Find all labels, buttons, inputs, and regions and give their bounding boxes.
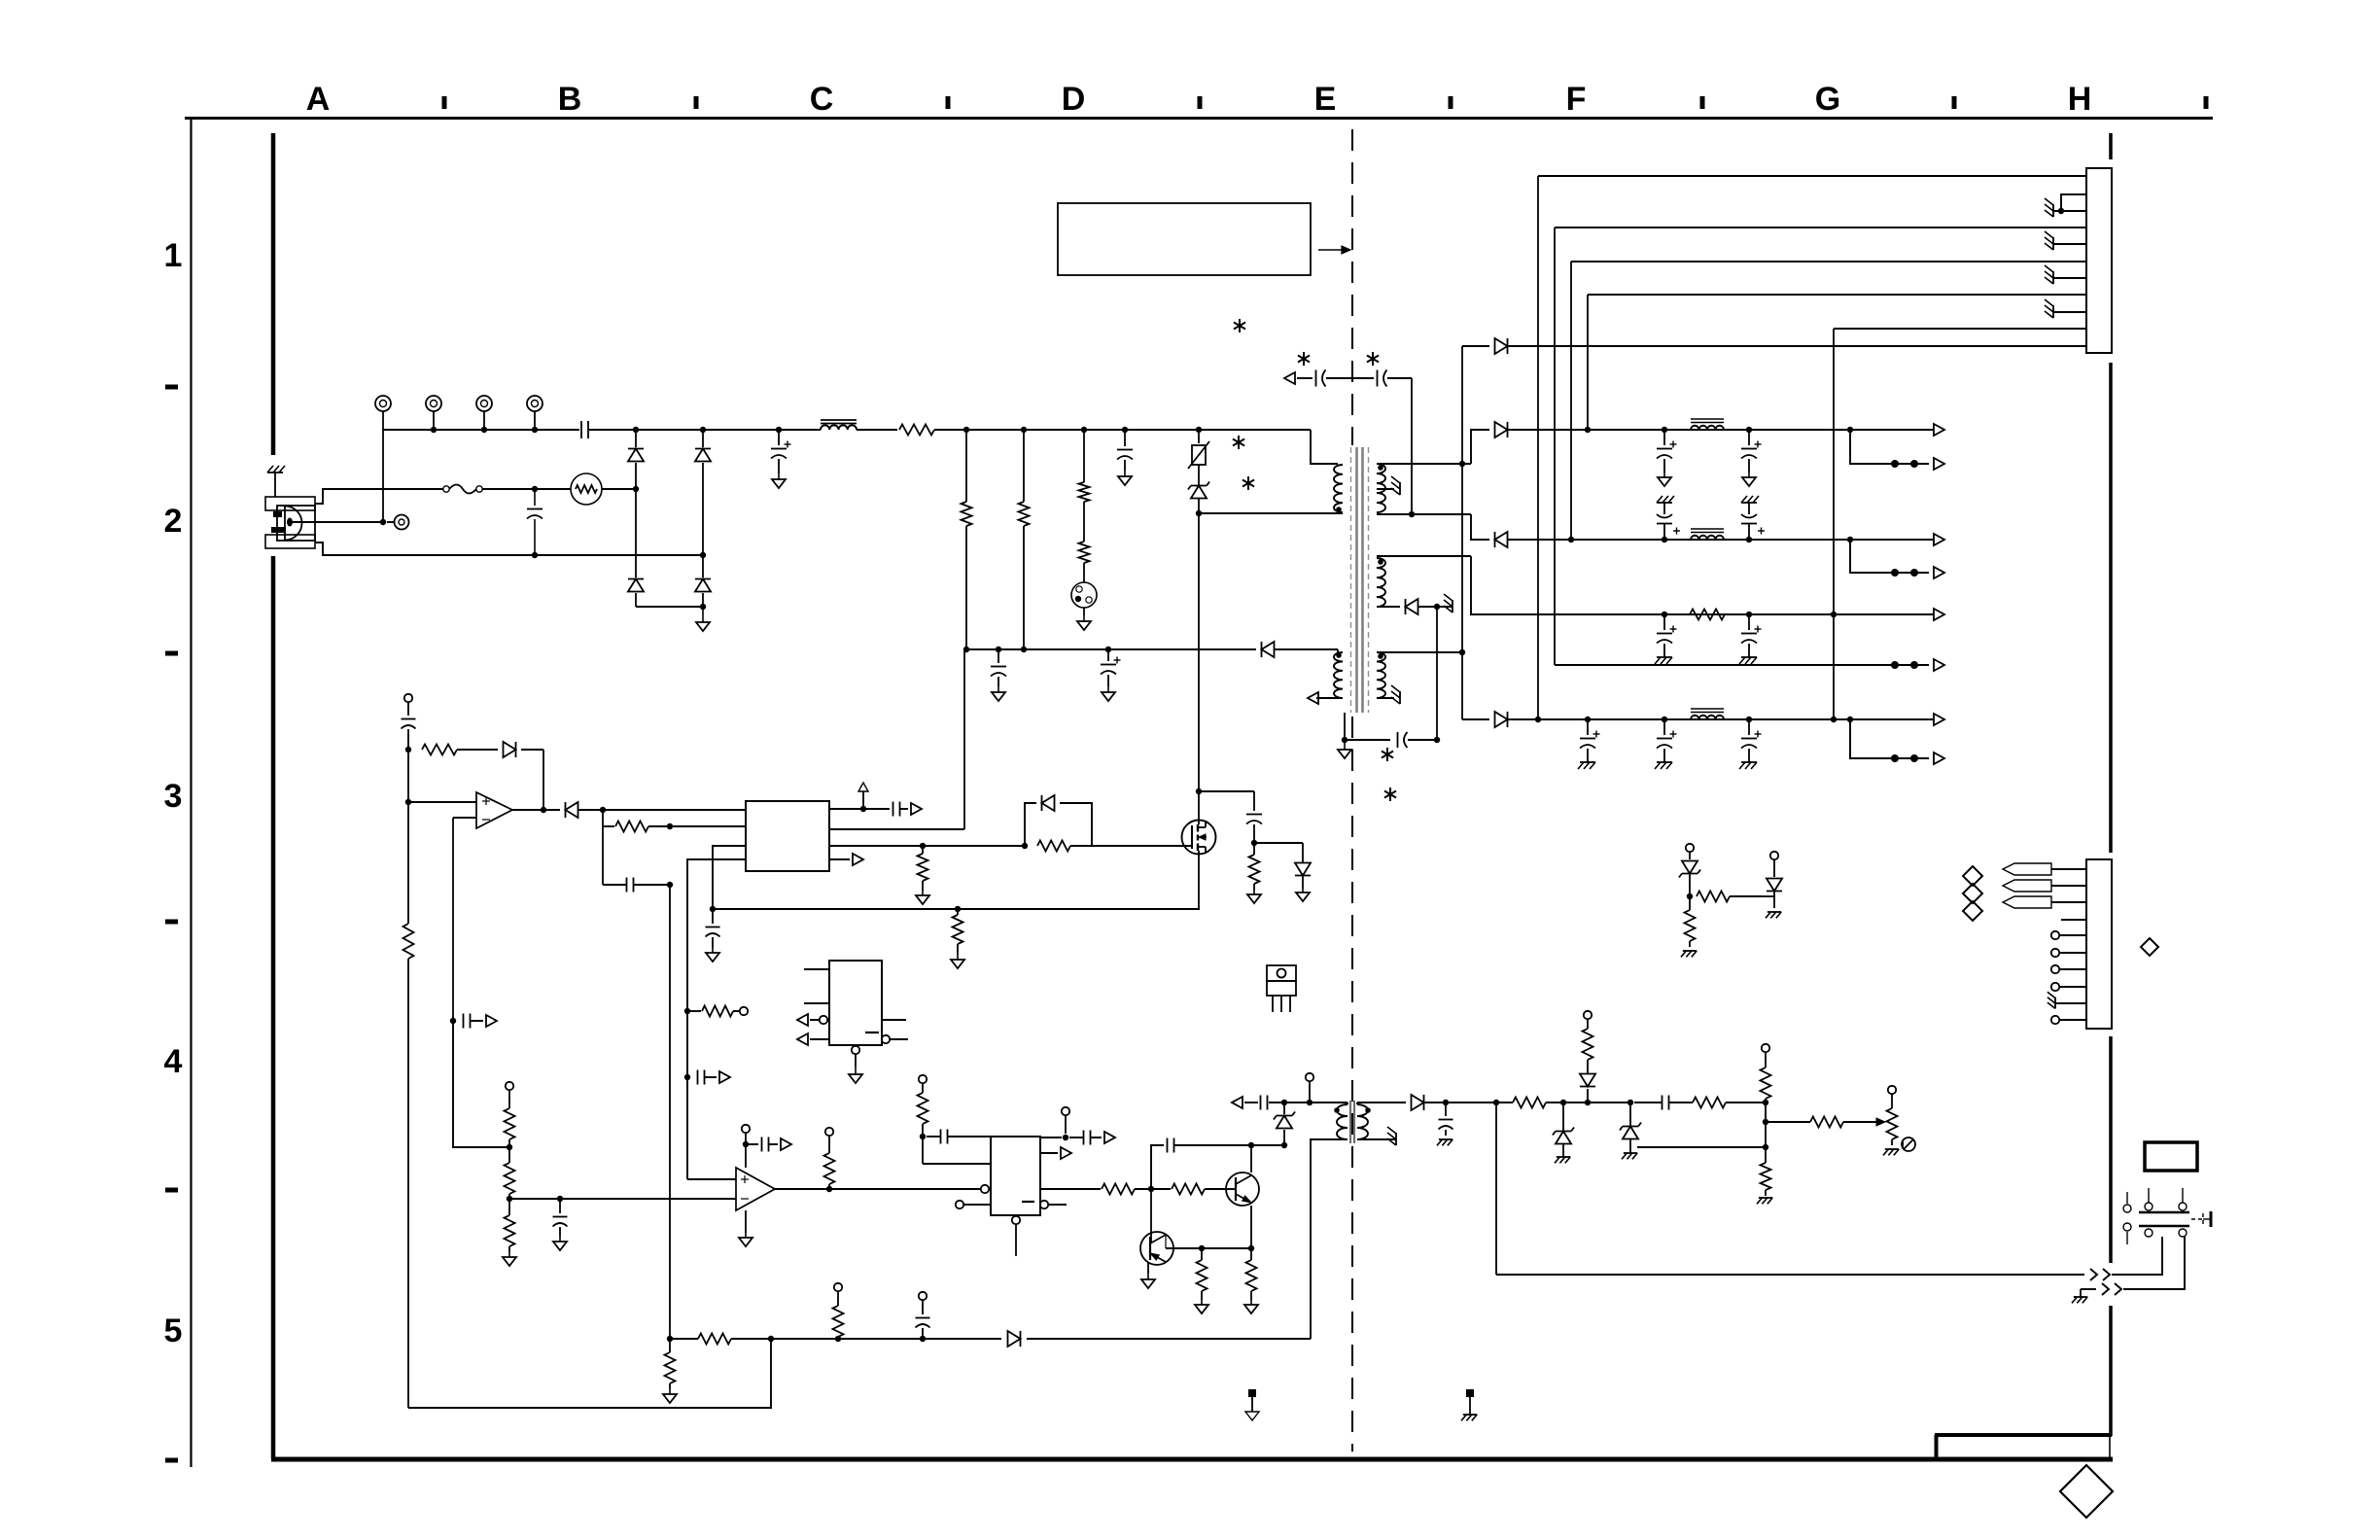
transistor Q2 bbox=[1226, 1172, 1259, 1206]
diode D7 bbox=[1471, 422, 1653, 464]
resistor R30 bbox=[1761, 1044, 1771, 1102]
resistor R26 bbox=[833, 1283, 844, 1339]
snubber capacitor C9 bbox=[1284, 370, 1412, 387]
rail1 capacitor C11 bbox=[1741, 430, 1762, 486]
U6 minus sign bbox=[1022, 1201, 1034, 1203]
current sense wire bbox=[713, 906, 1200, 912]
rail3 wire bbox=[1653, 612, 1934, 617]
ground D18 bbox=[1296, 889, 1310, 901]
svg-text:5: 5 bbox=[164, 1312, 183, 1349]
U4 pin1 bbox=[804, 968, 829, 970]
diamond marker C bbox=[1963, 901, 1982, 921]
diode D10 bbox=[1462, 712, 1653, 727]
capacitor C26 bbox=[553, 1199, 568, 1237]
capacitor C19 bbox=[1246, 791, 1262, 846]
test point TP4 bbox=[527, 396, 542, 433]
capacitor C6 bbox=[991, 649, 1006, 686]
wire chevron1 to switch bbox=[2112, 1237, 2162, 1275]
capacitor C23 bbox=[706, 909, 720, 948]
U4 pin3 bbox=[797, 1014, 827, 1026]
capacitor C30 bbox=[1151, 1138, 1251, 1190]
inline connector chevrons row1 bbox=[2090, 1269, 2110, 1280]
capacitor C24 bbox=[893, 802, 909, 817]
inner border thick right seg2 bbox=[2109, 363, 2113, 853]
feedback bottom wire bbox=[408, 1336, 774, 1408]
inner border thick left lower bbox=[271, 556, 276, 1459]
C27 arrow bbox=[781, 1138, 791, 1150]
capacitor C20 bbox=[402, 719, 416, 753]
IC U4 bbox=[829, 961, 882, 1045]
T1 secondary winding S2 bbox=[1377, 558, 1385, 607]
diamond marker A bbox=[1963, 866, 1982, 886]
U6 right pin2 arrow bbox=[1040, 1147, 1071, 1159]
ground U3 bbox=[739, 1210, 752, 1246]
ground mark G2 bbox=[1461, 1389, 1477, 1420]
svg-text:D: D bbox=[1062, 81, 1086, 118]
wire snubber to S1 bottom bbox=[1409, 378, 1415, 517]
wire loop down bbox=[1495, 1102, 1497, 1275]
U6 pin top resistor R19 bbox=[918, 1075, 928, 1139]
svg-text:B: B bbox=[558, 81, 582, 118]
opto LED D17 bbox=[1762, 852, 1782, 908]
CN2 pin9 ground bbox=[2047, 992, 2086, 1008]
svg-text:G: G bbox=[1815, 81, 1840, 118]
resistor R33 bbox=[1685, 896, 1696, 947]
chassis ground D9 bbox=[1437, 594, 1452, 612]
wire P1 bottom to drain rail bbox=[1199, 512, 1343, 514]
rail2 output arrow bbox=[1934, 534, 1944, 545]
CN1 pin5 ground bbox=[2045, 231, 2086, 250]
ground R22 bbox=[1195, 1300, 1208, 1313]
resistor R27 bbox=[1513, 1098, 1566, 1108]
transformer T1 core bbox=[1357, 447, 1363, 713]
chassis ground above AC inlet bbox=[267, 466, 285, 497]
resistor R21 bbox=[1172, 1184, 1226, 1195]
wire IC1 pin3 left bbox=[710, 846, 746, 912]
fuse F1 bbox=[443, 485, 482, 494]
capacitor C32 bbox=[916, 1292, 930, 1339]
wire Q2 emitter bbox=[1248, 1206, 1254, 1251]
wire bridge negative bbox=[636, 604, 706, 610]
resistor R28 bbox=[1583, 1019, 1593, 1060]
U6 right pin1 bbox=[1040, 1107, 1069, 1140]
rail4 choke L4 bbox=[1691, 709, 1724, 719]
resistor R3 bbox=[1019, 430, 1030, 652]
wire to transformer primary top bbox=[1311, 430, 1338, 464]
vcc arrow IC1 bbox=[858, 783, 868, 809]
CN1 pin9 ground bbox=[2045, 299, 2086, 318]
resistor R13 bbox=[603, 822, 746, 832]
asterisk 6 bbox=[1382, 748, 1393, 761]
ground C26 bbox=[553, 1237, 567, 1250]
resistor R23 bbox=[1246, 1248, 1257, 1300]
X-capacitor C2 bbox=[527, 489, 542, 558]
wire C19 to D18 bbox=[1254, 842, 1303, 844]
terminal T8 bbox=[742, 1125, 750, 1168]
capacitor C5 bbox=[1117, 430, 1133, 471]
T2 bottom-right ground bbox=[1357, 1127, 1396, 1145]
riser S1 to D6 bbox=[1461, 346, 1463, 719]
diode D5 bbox=[1262, 642, 1339, 657]
wire loop bottom bbox=[1496, 1274, 2084, 1276]
test point TP1 bbox=[375, 396, 391, 430]
CN1 pin2 link bbox=[2058, 194, 2086, 214]
U2 output wire bbox=[512, 809, 560, 811]
U4 out2 bbox=[882, 1035, 908, 1043]
op-amp U3 bbox=[736, 1168, 775, 1210]
ground bridge negative bbox=[696, 607, 710, 631]
capacitor C33 bbox=[1439, 1102, 1453, 1136]
chassis ground S1 tap bbox=[1391, 476, 1400, 495]
inner border thick right seg1 bbox=[2109, 133, 2113, 159]
T2 bottom-left wire bbox=[1311, 1139, 1347, 1339]
wire DC bus left segment bbox=[383, 430, 579, 522]
display DS1 bbox=[2145, 1142, 2197, 1171]
capacitor C21 bbox=[450, 1014, 483, 1029]
feedback wire row5 bbox=[1027, 1338, 1311, 1340]
thermistor RT1 bbox=[571, 473, 602, 505]
C29 arrow bbox=[1104, 1132, 1115, 1143]
resistor R20 bbox=[1102, 1184, 1171, 1195]
resistor R1 bbox=[899, 425, 969, 436]
ground R23 bbox=[1244, 1300, 1258, 1313]
CN2 harness pin1 bbox=[2003, 863, 2086, 875]
capacitor C25 bbox=[694, 1070, 717, 1085]
resistor R29 bbox=[1693, 1098, 1768, 1108]
T2 top-left wire bbox=[1269, 1100, 1347, 1105]
T1 primary winding P2 bbox=[1334, 652, 1343, 698]
svg-text:2: 2 bbox=[164, 503, 183, 540]
wire Q3 collector bbox=[1166, 1235, 1251, 1251]
rail3 resistor R6 bbox=[1690, 610, 1725, 620]
wire divider to U3 bbox=[509, 1196, 736, 1202]
gate loop resistor R9 bbox=[1037, 841, 1092, 852]
rail4 capacitor C18 bbox=[1739, 719, 1762, 769]
zener diode ZD1 bbox=[1188, 465, 1209, 794]
asterisk 4 bbox=[1233, 436, 1244, 449]
diode D13 bbox=[504, 742, 544, 810]
wire drain branch bbox=[1199, 790, 1254, 792]
IC1 out arrow pin bbox=[829, 854, 863, 865]
rail1 choke L2 bbox=[1691, 419, 1724, 430]
varistor RV1 bbox=[1188, 430, 1209, 469]
earth terminal bbox=[387, 515, 409, 530]
gate drive wire bbox=[829, 843, 1028, 849]
svg-text:3: 3 bbox=[164, 778, 183, 815]
T2 secondary winding bbox=[1357, 1104, 1371, 1139]
wire thermistor to bridge bbox=[602, 486, 639, 492]
resistor R25 bbox=[665, 1339, 676, 1389]
diode D6 bbox=[1462, 338, 2086, 354]
connector J2 round bbox=[1071, 582, 1097, 615]
ground C23 bbox=[706, 948, 719, 962]
ground J2 bbox=[1077, 615, 1091, 630]
wire S1 tap ground bbox=[1377, 488, 1394, 490]
rail1 capacitor C10 bbox=[1657, 430, 1677, 486]
bus wire 3 bbox=[1571, 261, 2086, 262]
wire AC line from inlet bbox=[315, 489, 443, 504]
rail3 capacitor C14 bbox=[1655, 614, 1677, 664]
wire Q2 collector bbox=[1248, 1142, 1254, 1172]
chassis ground R33 bbox=[1681, 951, 1697, 957]
wire S2 riser to rail3 bbox=[1471, 556, 1653, 614]
AC inlet connector J1 bbox=[265, 497, 315, 548]
wire S1 bottom bbox=[1377, 513, 1471, 515]
inner border thick left upper bbox=[271, 133, 276, 455]
inner border thick right seg4 bbox=[2109, 1306, 2113, 1436]
terminal VR1 bbox=[1888, 1086, 1896, 1094]
resistor R31 bbox=[1810, 1117, 1876, 1128]
asterisk 3 bbox=[1367, 352, 1379, 366]
inner border thick bottom bbox=[271, 1457, 2113, 1462]
connector CN1 bbox=[2086, 168, 2112, 353]
chassis ground S3 bbox=[1391, 685, 1400, 704]
wire U2 minus input bbox=[453, 818, 476, 1021]
switch S1 bbox=[2123, 1188, 2211, 1244]
title block bbox=[1935, 1435, 2112, 1457]
wire U2 plus input bbox=[405, 750, 476, 805]
U4 out1 bbox=[882, 1019, 906, 1021]
svg-text:A: A bbox=[306, 81, 331, 118]
U6 pin2 wire bbox=[923, 1137, 991, 1164]
T2 sec top wire bbox=[1357, 1102, 1406, 1104]
diode D9 bbox=[1406, 599, 1441, 614]
resistor R11 bbox=[422, 745, 498, 755]
wire source bbox=[1198, 851, 1200, 909]
fb wire 1 bbox=[1446, 1100, 1513, 1105]
zener diode ZD2 bbox=[1274, 1100, 1295, 1145]
wire ZD5 to R34 bbox=[1637, 1144, 1768, 1150]
wire U2 minus to divider bbox=[453, 1021, 509, 1147]
wire S2 bottom bbox=[1377, 606, 1400, 608]
wire DC bus right bbox=[966, 427, 1311, 433]
bridge diode D3 bbox=[628, 489, 644, 607]
bus riser 4 bbox=[1585, 295, 1591, 433]
resistor R4 bbox=[1079, 430, 1090, 502]
wire U3 plus bbox=[687, 1178, 736, 1180]
resistor R24 bbox=[670, 1334, 771, 1345]
capacitor C31 bbox=[1232, 1096, 1268, 1110]
rail3 return wire bbox=[1555, 659, 1944, 671]
rail3 output arrow bbox=[1934, 609, 1944, 620]
rail1 output arrow bbox=[1934, 424, 1944, 436]
transformer T1 core dashes bbox=[1351, 447, 1369, 713]
U6 left pin circle bbox=[981, 1185, 989, 1193]
test point TP2 bbox=[426, 396, 441, 433]
resistor R14 bbox=[687, 1006, 739, 1017]
svg-text:H: H bbox=[2068, 81, 2092, 118]
wire Q3 emitter ground bbox=[1141, 1262, 1155, 1288]
isolation boundary dashed line upper bbox=[1351, 129, 1353, 445]
terminal T10 bbox=[1584, 1011, 1592, 1019]
capacitor C22 bbox=[603, 826, 673, 892]
border outer left line bbox=[190, 118, 192, 1467]
revision diamond bottom right bbox=[2060, 1465, 2113, 1518]
CN2 pin4 stub bbox=[2061, 919, 2086, 921]
rail4 wire bbox=[1653, 717, 1934, 722]
bus riser 3 bbox=[1570, 262, 1572, 540]
svg-text:E: E bbox=[1314, 81, 1337, 118]
IC1 vcc wire bbox=[829, 649, 964, 829]
bus wire 2 bbox=[1555, 227, 2086, 228]
border outer top line bbox=[185, 117, 2213, 120]
wire loop to gate bbox=[1092, 845, 1192, 847]
chassis ground ZD5 bbox=[1622, 1153, 1637, 1159]
transistor Q3 bbox=[1140, 1232, 1173, 1265]
IC1 out1 arrow bbox=[911, 803, 922, 815]
diode D15 bbox=[1412, 1095, 1450, 1110]
chassis ground C33 bbox=[1437, 1139, 1452, 1145]
capacitor C34 bbox=[1634, 1096, 1693, 1110]
regulator U5 bbox=[1267, 965, 1296, 1012]
note box arrow bbox=[1318, 246, 1350, 254]
resistor R15 bbox=[505, 1108, 515, 1150]
riser D9 to D10 bbox=[1436, 607, 1438, 740]
resistor R8 bbox=[918, 846, 928, 891]
LED D16 bbox=[1580, 1060, 1595, 1102]
bridge diode D1 bbox=[628, 430, 644, 486]
wire Q2C to zener bbox=[1251, 1142, 1287, 1148]
resistor R5 bbox=[1079, 502, 1090, 582]
rail4 output arrow bbox=[1934, 714, 1944, 725]
wire IC1 pin4 left bbox=[684, 859, 746, 1179]
wire Q3 base bbox=[1150, 1189, 1152, 1243]
svg-text:F: F bbox=[1566, 81, 1587, 118]
ground mark G1 bbox=[1245, 1389, 1259, 1420]
bus riser 2 bbox=[1554, 227, 1556, 665]
diode D14 bbox=[771, 1331, 1021, 1347]
IC U6 bbox=[991, 1137, 1040, 1215]
resistor R12 bbox=[403, 802, 414, 1408]
asterisk 2 bbox=[1298, 352, 1310, 366]
diamond marker B bbox=[1963, 884, 1982, 903]
bus wire 5 bbox=[1834, 328, 2086, 330]
note box bbox=[1058, 203, 1311, 275]
ground R17 bbox=[503, 1252, 516, 1266]
bus wire 4 bbox=[1588, 294, 2086, 296]
U4 pin2 bbox=[804, 1002, 829, 1004]
svg-text:4: 4 bbox=[164, 1043, 183, 1080]
rail3 capacitor C15 bbox=[1739, 614, 1762, 664]
wire AC earth from inlet bbox=[293, 519, 386, 525]
wire DC bus middle bbox=[589, 427, 821, 433]
terminal T9 bbox=[1306, 1073, 1313, 1102]
bus riser 1 bbox=[1537, 176, 1539, 719]
diode D8 bbox=[1471, 514, 1653, 547]
ground C5 bbox=[1118, 471, 1132, 485]
border top tick marks bbox=[442, 96, 2209, 109]
CN1 pin3 ground bbox=[2045, 198, 2086, 217]
T1 secondary winding S3 bbox=[1377, 652, 1385, 698]
CN2 pin10 bbox=[2051, 1016, 2086, 1024]
chassis ground ZD3 bbox=[1555, 1157, 1570, 1163]
wire chevron2 to switch bbox=[2123, 1237, 2185, 1289]
T1 shield to ground bbox=[1342, 713, 1347, 743]
capacitor C8 bbox=[1345, 732, 1440, 748]
U6 bottom-right pin bbox=[1040, 1201, 1067, 1208]
capacitor C28 bbox=[927, 1130, 991, 1144]
smoothing capacitor C4 bbox=[771, 430, 791, 473]
trimmer arrow bbox=[1876, 1118, 1885, 1126]
terminal T6 bbox=[740, 1007, 748, 1015]
C21 arrow bbox=[486, 1015, 497, 1027]
chassis ground D17 bbox=[1766, 912, 1781, 918]
wire P2 bottom off-page bbox=[1308, 692, 1343, 704]
chassis ground VR1 bbox=[1883, 1149, 1899, 1155]
ground R25 bbox=[663, 1389, 677, 1403]
wire S3 bottom ground bbox=[1377, 697, 1394, 699]
T1 secondary winding S1 bbox=[1377, 464, 1385, 512]
connector CN2 bbox=[2086, 859, 2112, 1029]
diode D12 bbox=[541, 802, 746, 818]
chassis ground R34 bbox=[1757, 1198, 1772, 1204]
capacitor C7 electrolytic bbox=[1101, 649, 1121, 686]
rail2 branch bbox=[1850, 540, 1944, 578]
asterisk 1 bbox=[1234, 319, 1245, 332]
feedback riser bbox=[667, 885, 673, 1342]
asterisk 5 bbox=[1242, 476, 1254, 490]
IC1 out1 wire bbox=[829, 806, 890, 812]
zener diode ZD4 bbox=[1679, 861, 1700, 900]
wire IC1 in1 bbox=[602, 810, 604, 826]
diode D18 bbox=[1295, 843, 1311, 889]
border left tick marks bbox=[165, 385, 178, 1463]
filter choke L1 bbox=[821, 420, 897, 430]
rail2 capacitor C12 bbox=[1657, 496, 1680, 540]
transformer T2 core bbox=[1350, 1101, 1354, 1143]
wire AC neutral from inlet bbox=[315, 542, 703, 555]
fb wire 2 bbox=[1563, 1100, 1633, 1105]
zener diode ZD5 bbox=[1620, 1102, 1641, 1153]
rail4 capacitor C16 bbox=[1578, 719, 1600, 769]
CN2 pin6 bbox=[2051, 949, 2086, 957]
ground C7 bbox=[1102, 686, 1115, 701]
bus riser 5 bbox=[1833, 329, 1835, 719]
rail2 capacitor C13 bbox=[1741, 496, 1765, 540]
terminal T11 bbox=[1686, 844, 1694, 859]
svg-text:1: 1 bbox=[164, 237, 183, 274]
bus wire 1 bbox=[1538, 175, 2086, 177]
wire Q2 base bbox=[1226, 1188, 1236, 1190]
resistor R32 bbox=[1697, 892, 1762, 902]
rail4 branch bbox=[1850, 719, 1944, 764]
ground R10 bbox=[951, 955, 964, 968]
IC U1 bbox=[746, 801, 829, 871]
T2 primary winding bbox=[1334, 1104, 1347, 1139]
fb branch bbox=[1763, 1102, 1810, 1163]
row numbers 1-5 bbox=[164, 237, 183, 1349]
U6 bottom-left pin bbox=[956, 1201, 991, 1208]
wire S1 top bbox=[1377, 461, 1471, 467]
rail1 wire bbox=[1653, 427, 1934, 433]
terminal T5 bbox=[404, 694, 412, 716]
inner border thick right seg3 bbox=[2109, 1036, 2113, 1263]
capacitor C3 bbox=[581, 421, 588, 438]
U4 pin4 bbox=[797, 1033, 829, 1045]
MOSFET Q1 bbox=[1182, 821, 1216, 855]
resistor R16 bbox=[505, 1147, 515, 1202]
divider terminal T7 bbox=[506, 1082, 513, 1108]
CN1 pin7 ground bbox=[2045, 265, 2086, 284]
zener diode ZD3 bbox=[1553, 1102, 1574, 1157]
ground R7 bbox=[1247, 891, 1261, 903]
ground R8 bbox=[916, 891, 929, 904]
wire aux rail bbox=[966, 647, 1256, 652]
isolation boundary dashed line middle bbox=[1351, 717, 1353, 1452]
bridge diode D2 bbox=[695, 430, 711, 558]
diamond marker D bbox=[2141, 938, 2158, 956]
resistor R2 bbox=[962, 430, 972, 652]
